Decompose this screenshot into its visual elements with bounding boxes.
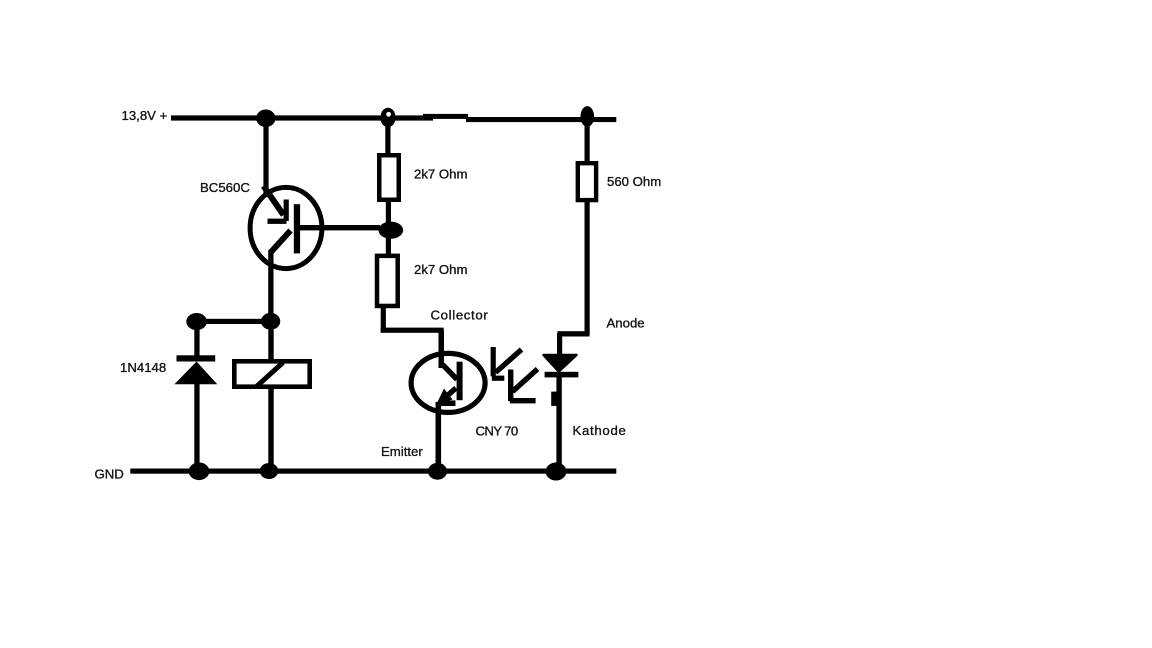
wire top rail segment 2 (overlap stroke) [423,114,468,119]
node base junction dot [379,222,404,239]
svg-text:Kathode: Kathode [573,423,627,438]
wire base of Q1 to node [300,225,380,230]
phototransistor U1 CNY70 body circle [411,353,485,412]
light arrow 2 shaft [513,369,538,392]
phototransistor collector diagonal [443,365,458,380]
wire top rail segment 3 [466,117,616,122]
resistor R2 2k7 body [377,256,398,306]
light arrow 2 horizontal barb [510,398,536,403]
wire relay coil top stub [268,321,273,359]
resistor R1 2k7 body [379,155,399,200]
wire collector drop from Q1 to relay node [268,250,273,321]
wire top rail segment 1 [171,115,433,120]
svg-text:13,8V +: 13,8V + [122,108,168,123]
phototransistor emitter arrowhead [436,389,453,406]
wire jog vertical into CNY70 [439,330,445,353]
diode D1 1N4148 triangle [174,362,217,385]
node ground dot below diode [189,463,210,481]
node ground dot below relay [260,463,279,479]
light arrow 1 vertical barb [491,347,496,376]
svg-text:Emitter: Emitter [381,444,423,459]
light arrow 1 horizontal barb [492,376,505,381]
wire below R3 long vertical [585,202,590,335]
wire between diode and relay nodes [196,319,271,324]
node junction dot on rail above R1 (with white pinhole) [380,108,395,128]
wire LED cathode to ground [556,377,561,471]
LED D2 triangle [544,355,577,372]
svg-text:2k7 Ohm: 2k7 Ohm [414,262,468,277]
wire R1 to base node [386,202,391,223]
wire ground rail [130,469,616,474]
wire base node to R2 [386,238,391,255]
relay K1 coil box [234,361,309,386]
light arrow 2 vertical barb [508,370,513,402]
wire jog horizontal to CNY70 collector [381,328,444,333]
node ground dot below LED kathode [546,463,567,481]
wire relay coil bottom to ground [268,389,273,471]
svg-text:BC560C: BC560C [200,180,250,195]
transistor Q1 base bar [294,204,300,253]
transistor Q1 emitter arrow vertical barb [284,200,289,222]
transistor Q1 BC560C body circle [250,187,322,268]
svg-text:GND: GND [95,467,124,482]
wire diode anode to ground [194,384,199,471]
light arrow 1 shaft [496,350,522,373]
phototransistor base bar [457,362,463,401]
transistor Q1 emitter arrow horizontal barb [268,219,287,224]
node dot relay top [261,313,280,330]
svg-text:1N4148: 1N4148 [120,360,166,375]
LED D2 cathode bar [545,372,579,378]
wire LED cathode overlap stroke [551,392,557,406]
diode D1 1N4148 cathode bar [177,355,216,361]
phototransistor emitter arrow barb [438,400,456,406]
node junction dot on rail above BC560C emitter [256,110,275,128]
node ground dot below CNY70 emitter [428,463,447,480]
wire below R2 vertical [381,308,386,333]
node dot diode top [186,313,207,330]
resistor R3 560 Ohm body [578,163,596,200]
wire drop from rail to R3 [585,117,590,162]
transistor Q1 collector diagonal [271,231,291,253]
phototransistor collector wire inside [439,350,445,368]
wire diode cathode stub [194,321,199,357]
wire jog to LED anode [558,331,590,336]
wire emitter of CNY70 to ground [436,402,442,471]
wire emitter drop from rail into Q1 [263,118,268,197]
relay K1 diagonal [257,363,284,387]
svg-text:CNY 70: CNY 70 [476,424,518,439]
node junction dot on rail above 560 Ohm [581,106,595,127]
transistor Q1 emitter arrow shaft [264,186,284,215]
svg-text:2k7 Ohm: 2k7 Ohm [414,167,468,182]
svg-text:Collector: Collector [431,308,489,323]
svg-text:560 Ohm: 560 Ohm [607,174,661,189]
svg-text:Anode: Anode [607,316,645,331]
wire drop to LED triangle [557,333,562,355]
phototransistor emitter arrow shaft [443,388,456,400]
wire stub rail to R1 [385,117,390,154]
